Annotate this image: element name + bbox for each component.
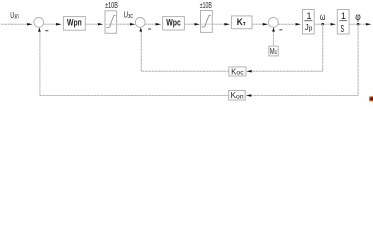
minus sign at S1 [45, 30, 48, 32]
wire omega tap down [322, 24, 324, 71]
wire Koc to S2 leg [141, 70, 229, 72]
summing junction S2 [135, 18, 145, 28]
wire S3 to 1/Jp [278, 23, 295, 25]
wire 1/s to output [349, 23, 365, 25]
svg-text:Mс: Mс [270, 47, 278, 56]
arrow into summing junction S2 [130, 23, 136, 26]
artifact mark bottom right (orange-red blob) [369, 96, 373, 101]
wire limiter1 to S2 [117, 23, 131, 25]
node dot omega tap [321, 23, 324, 26]
wire Kt to S3 [252, 23, 263, 25]
feedback block Kop [229, 91, 246, 101]
minus sign at S3 [279, 29, 282, 31]
wire limiter2 to Kt [212, 23, 225, 25]
summing junction S1 [34, 18, 44, 28]
disturbance block Mc [269, 46, 278, 56]
wire S1 to Wrp [44, 23, 57, 25]
arrow into Wrs [156, 23, 162, 26]
saturation curve in limiter1 [105, 23, 117, 25]
block Kt [231, 16, 252, 29]
block 1/Jp (integrator of inertia) [303, 10, 315, 35]
arrow into Kop [246, 94, 252, 97]
wire Wrp to limiter1 [85, 23, 97, 25]
arrow into summing junction S1 [27, 23, 32, 26]
feedback block Koc [229, 67, 246, 76]
arrow into Kt [224, 23, 230, 26]
wire up to S2 [140, 32, 142, 72]
arrow into limiter1 [98, 23, 104, 26]
wire input Uzp [1, 23, 30, 25]
svg-text:Kоп: Kоп [231, 91, 244, 100]
fraction bar of 1/Jp [304, 20, 312, 22]
svg-text:±10В: ±10В [105, 0, 118, 10]
svg-text:Kос: Kос [231, 67, 244, 76]
arrow feedback into S2 [140, 27, 143, 31]
svg-text:Uзп: Uзп [10, 10, 19, 20]
svg-text:1: 1 [307, 11, 312, 21]
arrow into 1/s [330, 23, 336, 26]
svg-text:1: 1 [341, 11, 346, 21]
svg-text:Wрс: Wрс [166, 18, 181, 28]
svg-text:ω: ω [320, 12, 326, 23]
limiter block 1 (saturation) [105, 11, 117, 34]
svg-text:Uзс: Uзс [124, 10, 134, 20]
svg-text:s: s [341, 21, 344, 35]
arrow feedback into S1 [38, 27, 41, 31]
arrow into 1/Jp [296, 23, 302, 26]
arrow into Wrp [56, 23, 62, 26]
wire omega feedback horizontal to Koc [252, 70, 323, 72]
svg-text:±10В: ±10В [200, 0, 212, 10]
svg-text:φ: φ [355, 12, 361, 23]
node dot phi tap [357, 23, 360, 26]
saturation curve in limiter2 [201, 23, 213, 25]
arrow into Koc [246, 70, 252, 73]
wire Mc to S3 [273, 32, 275, 47]
output arrow phi [366, 23, 372, 26]
wire phi tap down [357, 24, 359, 95]
block Wrs [163, 17, 185, 30]
wire phi feedback horizontal to Kop [251, 95, 358, 97]
arrow Mc into S3 [272, 27, 275, 31]
wire 1/Jp to 1/s [314, 23, 329, 25]
fraction bar of 1/s [339, 20, 347, 22]
limiter block 2 (saturation) [201, 11, 213, 33]
block Wrp [63, 17, 85, 31]
wire Wrs to limiter2 [184, 23, 194, 25]
svg-text:Wрп: Wрп [67, 18, 82, 28]
wire Kop to S1 leg [40, 95, 229, 97]
block 1/s (integrator) [337, 10, 349, 35]
summing junction S3 [268, 17, 278, 27]
wire up to S1 [39, 32, 41, 96]
arrow into limiter2 [194, 23, 200, 26]
minus sign at S2 [148, 28, 151, 30]
arrow into summing junction S3 [263, 23, 269, 26]
wire S2 to Wrs [145, 23, 156, 25]
